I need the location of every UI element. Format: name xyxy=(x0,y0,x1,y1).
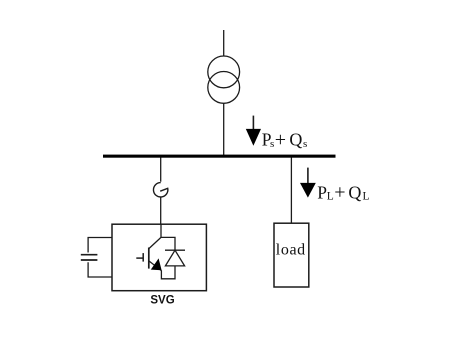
svg-text:+: + xyxy=(334,182,345,204)
svg-text:L: L xyxy=(363,191,370,203)
svg-text:s: s xyxy=(303,138,307,150)
svg-text:load: load xyxy=(276,242,306,259)
svg-text:Q: Q xyxy=(289,130,302,150)
svg-text:Q: Q xyxy=(348,182,361,202)
svg-text:s: s xyxy=(270,138,274,150)
svg-text:L: L xyxy=(327,191,334,203)
svg-text:+: + xyxy=(275,129,286,151)
svg-text:SVG: SVG xyxy=(150,295,174,307)
